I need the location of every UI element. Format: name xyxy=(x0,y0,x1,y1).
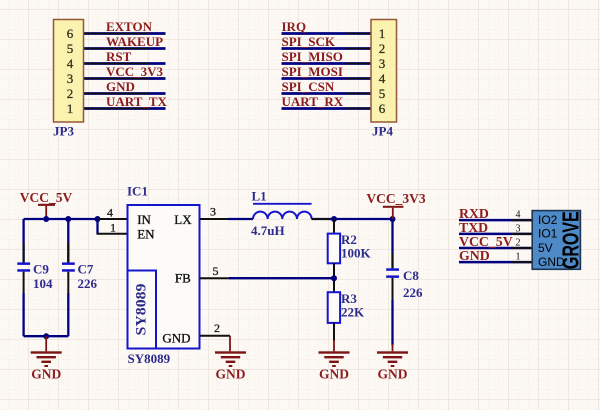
pin 1 EN wire xyxy=(96,219,98,234)
svg-text:RXD: RXD xyxy=(459,206,489,221)
svg-text:1: 1 xyxy=(516,251,521,262)
op-amp U1 regulator IC1 SY8089 xyxy=(128,205,200,349)
svg-text:GND: GND xyxy=(378,367,408,382)
svg-text:VCC_3V3: VCC_3V3 xyxy=(366,191,425,206)
ground left xyxy=(31,336,62,381)
wire LX to L1 xyxy=(228,218,253,220)
svg-text:IC1: IC1 xyxy=(127,184,148,199)
svg-text:SPI_MISO: SPI_MISO xyxy=(282,49,343,64)
svg-text:WAKEUP: WAKEUP xyxy=(106,34,163,49)
node junction VCC_5V xyxy=(43,216,49,222)
wire L1 to VCC_3V3 node xyxy=(312,218,393,220)
connector JP4 xyxy=(371,20,397,123)
svg-text:GND: GND xyxy=(162,330,190,345)
wire bottom join C9 C7 xyxy=(24,335,69,337)
svg-text:6: 6 xyxy=(379,101,386,116)
svg-text:UART_RX: UART_RX xyxy=(282,94,344,109)
svg-text:JP3: JP3 xyxy=(53,124,74,139)
svg-text:C9: C9 xyxy=(33,262,49,277)
svg-text:4: 4 xyxy=(379,71,386,86)
node junction GND left xyxy=(43,333,49,339)
svg-text:2: 2 xyxy=(67,86,74,101)
wire pin2 VCC_5V xyxy=(459,247,532,250)
svg-text:2: 2 xyxy=(214,321,220,335)
wire pin4 JP3 RST xyxy=(84,62,166,65)
wire pin2 JP4 SPI_SCK xyxy=(282,47,372,50)
svg-text:3: 3 xyxy=(210,205,216,219)
node junction R2 top xyxy=(331,216,337,222)
pin 2 GND wire xyxy=(200,335,231,337)
pin 5 FB wire xyxy=(200,277,229,279)
svg-text:GROVE: GROVE xyxy=(559,211,585,269)
wire pin4 JP4 SPI_MOSI xyxy=(282,77,372,80)
svg-text:3: 3 xyxy=(379,56,386,71)
svg-text:EN: EN xyxy=(137,227,155,242)
svg-text:SY8089: SY8089 xyxy=(128,351,171,366)
ground IC xyxy=(215,336,246,382)
svg-text:GND: GND xyxy=(31,367,61,382)
svg-text:C8: C8 xyxy=(403,268,419,283)
svg-text:4: 4 xyxy=(516,210,521,221)
svg-text:JP4: JP4 xyxy=(372,124,393,139)
connector JP3 xyxy=(54,20,84,123)
svg-text:SPI_CSN: SPI_CSN xyxy=(282,79,335,94)
svg-text:1: 1 xyxy=(379,26,386,41)
svg-text:C7: C7 xyxy=(78,262,94,277)
svg-text:IO1: IO1 xyxy=(538,227,558,241)
wire pin2 JP3 GND xyxy=(84,92,166,95)
svg-text:FB: FB xyxy=(175,271,191,286)
svg-text:5: 5 xyxy=(67,41,74,56)
wire FB to divider xyxy=(229,277,334,279)
svg-text:TXD: TXD xyxy=(459,220,488,235)
svg-text:IN: IN xyxy=(137,212,151,227)
svg-text:4: 4 xyxy=(67,56,74,71)
wire pin1 GND xyxy=(459,261,532,264)
svg-text:6: 6 xyxy=(67,26,74,41)
svg-text:IO2: IO2 xyxy=(538,213,558,227)
svg-text:VCC_5V: VCC_5V xyxy=(20,190,73,205)
svg-text:226: 226 xyxy=(78,276,98,291)
svg-text:LX: LX xyxy=(174,212,192,227)
pin 4 IN wire xyxy=(98,218,128,220)
node junction IN branch xyxy=(95,216,101,222)
inductor L1 xyxy=(251,189,312,239)
node junction VCC_3V3 xyxy=(390,216,396,222)
power symbol VCC_3V3 xyxy=(366,191,425,219)
svg-text:100K: 100K xyxy=(341,246,372,261)
capacitor C9 xyxy=(17,219,53,336)
wire pin5 JP3 WAKEUP xyxy=(84,47,166,50)
svg-text:VCC_5V: VCC_5V xyxy=(459,234,513,249)
svg-text:RST: RST xyxy=(106,49,132,64)
ground C8 xyxy=(377,344,408,382)
svg-text:UART_TX: UART_TX xyxy=(106,94,168,109)
wire pin1 JP3 UART_TX xyxy=(84,107,166,110)
svg-text:SPI_MOSI: SPI_MOSI xyxy=(282,64,343,79)
node junction C7 top xyxy=(65,216,71,222)
svg-text:EXTON: EXTON xyxy=(106,19,153,34)
power symbol VCC_5V xyxy=(20,190,73,219)
svg-text:GND: GND xyxy=(459,248,490,263)
svg-text:5V: 5V xyxy=(538,241,553,255)
connector GROVE xyxy=(532,211,584,270)
svg-text:22K: 22K xyxy=(341,305,365,320)
wire pin3 JP3 VCC_3V3 xyxy=(84,77,166,80)
svg-text:3: 3 xyxy=(67,71,74,86)
capacitor C7 xyxy=(62,219,98,336)
svg-text:3: 3 xyxy=(516,223,521,234)
pin 3 LX wire xyxy=(200,218,231,220)
svg-text:GND: GND xyxy=(106,79,135,94)
svg-text:5: 5 xyxy=(379,86,386,101)
svg-text:226: 226 xyxy=(403,285,423,300)
svg-text:L1: L1 xyxy=(252,189,267,204)
resistor R2 xyxy=(328,219,372,292)
node junction FB xyxy=(331,275,337,281)
svg-text:SPI_SCK: SPI_SCK xyxy=(282,34,336,49)
svg-text:GND: GND xyxy=(319,367,349,382)
svg-text:1: 1 xyxy=(110,221,116,235)
svg-text:1: 1 xyxy=(67,101,74,116)
resistor R3 xyxy=(328,291,365,341)
wire pin6 JP3 EXTON xyxy=(84,32,166,35)
svg-text:2: 2 xyxy=(516,237,521,248)
svg-text:4.7uH: 4.7uH xyxy=(251,223,285,238)
wire pin4 RXD xyxy=(459,219,532,222)
svg-text:5: 5 xyxy=(213,264,219,278)
wire pin5 JP4 SPI_CSN xyxy=(282,92,372,95)
ground R3 xyxy=(319,340,350,382)
wire pin6 JP4 UART_RX xyxy=(282,107,372,110)
svg-text:2: 2 xyxy=(379,41,386,56)
svg-text:IRQ: IRQ xyxy=(282,19,307,34)
svg-text:GND: GND xyxy=(216,367,246,382)
svg-text:VCC_3V3: VCC_3V3 xyxy=(106,64,164,79)
wire pin1 JP4 IRQ xyxy=(282,32,372,35)
svg-text:4: 4 xyxy=(107,206,113,220)
svg-text:SY8089: SY8089 xyxy=(133,284,149,336)
svg-text:104: 104 xyxy=(33,276,53,291)
wire pin3 TXD xyxy=(459,233,532,236)
capacitor C8 xyxy=(386,219,423,346)
wire pin3 JP4 SPI_MISO xyxy=(282,62,372,65)
wire main 5V rail xyxy=(24,218,98,220)
